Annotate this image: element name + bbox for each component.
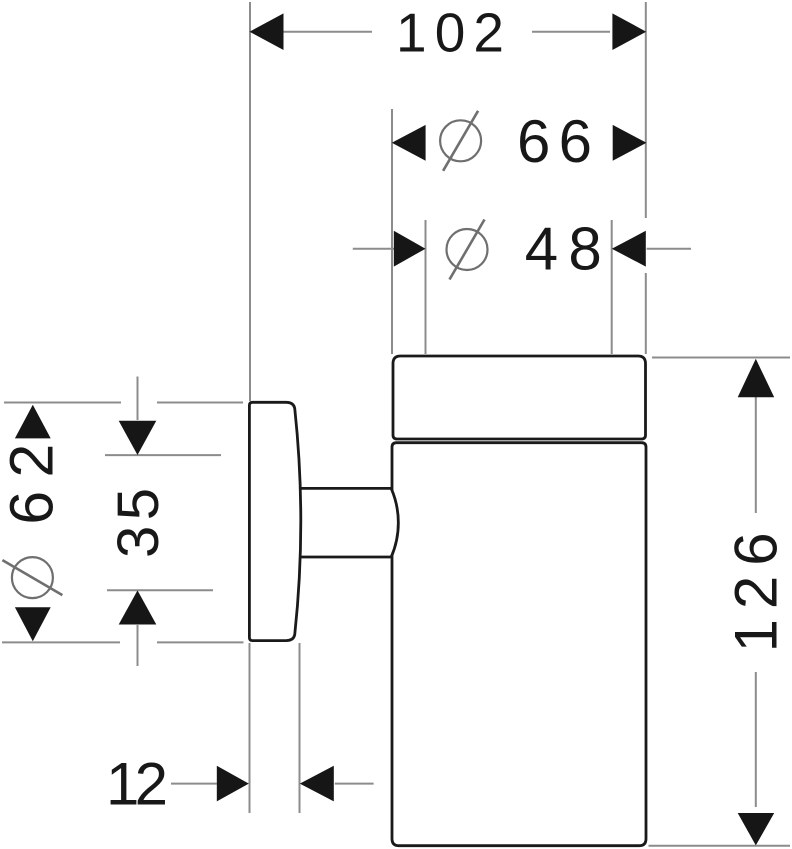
dimension 12 tail left [171,783,217,785]
arrowhead 48 left [394,231,426,267]
extension line hole-bottom y=590.3 (dim 35 bottom) [107,589,213,591]
extension line plate-left x=249.5 lower (dim 12 left) [249,643,251,813]
extension line cup-left x=392 (dim 66 left) [391,109,393,354]
diameter symbol for 48 [447,220,488,280]
dimension 35 tail bottom [137,625,139,666]
diameter symbol for 66 [440,111,481,171]
dimension 102 tail right [532,31,610,33]
extension line cup-right x=646 upper (dim 102/66 right) [645,2,647,218]
extension line plate-top y=402.5 left part [4,402,121,404]
dimension 48 tail right [647,248,691,250]
extension line wall/plate-left x=250 (dim 102 left) [249,2,251,401]
arrowhead 126 up [738,359,775,397]
extension line cup-right x=646 lower [645,273,647,354]
arrowhead 35 down [119,421,157,455]
arrowhead 12 right [217,766,249,802]
dimension 48 tail left [353,248,394,250]
svg-text:12: 12 [106,750,168,817]
extension line cup-top y=357.5 (dim 126 top) [652,357,790,359]
arrowhead 48 right [612,231,646,267]
arrowhead 66 left [392,125,426,161]
dimension 126 line upper [755,397,757,513]
dimension 35 tail top [137,377,139,421]
dimension 126 line lower [755,672,757,807]
arrowhead 66 right [613,125,647,161]
extension line cup-bottom y=845.8 (dim 126 bottom) [649,845,791,847]
arrowhead 102 right [612,13,646,50]
svg-text:102: 102 [396,1,504,63]
extension line inner-right x=611.7 (dim 48 right) [611,220,613,354]
mounting arm [295,488,398,557]
arrowhead 102 left [250,13,284,50]
arrowhead 62 up [15,405,51,439]
extension line plate-top y=402.5 right part [157,402,243,404]
arrowhead 126 down [738,813,775,845]
arrowhead 12 left [300,766,334,802]
dimension 102 tail left [284,31,373,33]
diameter symbol for 62 (rotated) [2,557,62,598]
extension line plate-bottom y=642.4 right part [157,641,244,643]
tumbler holder rim outline [393,356,646,439]
wall plate outline [249,402,300,640]
svg-text:126: 126 [722,532,789,652]
extension line plate-bottom y=642.4 left part [2,641,120,643]
dimension 12 tail right [335,783,374,785]
extension line inner-left x=425.5 (dim 48 left) [425,220,427,354]
extension line plate-right x=299.5 lower (dim 12 right) [299,643,301,813]
arrowhead 35 up [119,590,157,624]
tumbler body outline [392,443,646,846]
extension line hole-top y=455.1 (dim 35 top) [105,454,221,456]
arrowhead 62 down [15,607,51,641]
